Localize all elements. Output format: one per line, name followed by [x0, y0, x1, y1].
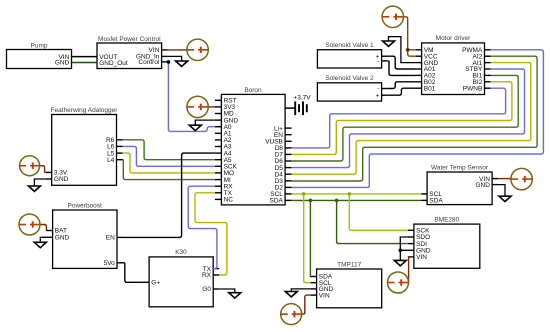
svg-text:EN: EN: [106, 235, 115, 242]
power symbol (Mosfet VIN supply): [187, 39, 208, 60]
power symbol (Boron 3V3 supply): [187, 96, 208, 117]
wire Mosfet Control segment: [168, 61, 170, 63]
powerboost right pins EN 5Vo: [104, 235, 123, 267]
ground (Mosfet GND_In): [168, 56, 188, 66]
wire Boron D5 to Motor STBY (blue): [292, 69, 525, 168]
ground (Water Temp GND): [498, 185, 511, 202]
wire Boron D2 to Motor PWMA (blue): [292, 50, 544, 188]
water temp sensor left pins SCL SDA: [421, 191, 443, 205]
pump pins VIN GND: [55, 54, 72, 67]
wire BME280 GND to ground node: [400, 249, 408, 251]
power symbol (Motor VM supply): [382, 6, 403, 27]
K30 right pins TX RX G0: [202, 266, 219, 293]
wire Boron SCL to Water Temp SCL (chartreuse): [292, 193, 422, 195]
ground (Powerboost GND): [34, 237, 46, 247]
wire Feather L5 to Boron MO (yellow): [123, 153, 215, 173]
svg-text:Featherwing Adalogger: Featherwing Adalogger: [51, 107, 119, 114]
junction SDA at TMP117 branch: [309, 199, 313, 203]
svg-text:PWNB: PWNB: [463, 85, 483, 92]
wire Mosfet VIN to power symbol: [168, 49, 187, 51]
solenoid valve 1: [317, 42, 381, 68]
svg-text:G+: G+: [151, 280, 160, 287]
TMP117 sensor: [317, 261, 382, 308]
svg-text:Motor driver: Motor driver: [436, 35, 472, 42]
solenoid valve 1 pins + -: [376, 53, 388, 65]
svg-text:GND: GND: [54, 176, 69, 183]
wire Feather L4 to Boron MI (green): [123, 160, 215, 180]
wire Boron D4 to Motor AI1 (yellow): [292, 63, 531, 175]
wire SV1 + to Motor A01: [388, 56, 416, 69]
power symbol (Powerboost BAT): [19, 214, 40, 235]
wire SV2 - to Motor B02: [388, 82, 416, 89]
wire Control net to Boron A0 (blue): [168, 63, 215, 132]
svg-text:Boron: Boron: [244, 87, 262, 94]
junction SDA at BME280 branch: [335, 199, 339, 203]
wire branch to Motor VM: [408, 49, 416, 51]
wire Boron SDA to Water Temp SDA (dark green): [292, 199, 422, 201]
wire Water Temp VIN to power: [498, 178, 511, 180]
svg-text:Pump: Pump: [31, 42, 48, 49]
wire power to Boron 3V3: [208, 106, 215, 108]
svg-text:GND: GND: [475, 182, 490, 189]
svg-text:+3.7V: +3.7V: [293, 95, 311, 102]
motor driver right pins: [462, 47, 490, 92]
wire Boron D3 to Motor AI2 (green): [292, 56, 537, 181]
solenoid valve 2: [317, 75, 381, 101]
junction SCL at BME280 branch: [348, 192, 352, 196]
power symbol (BME280 VIN): [388, 272, 409, 293]
svg-text:Control: Control: [138, 59, 160, 66]
svg-text:-: -: [377, 58, 379, 65]
wire Powerboost 5Vo to K30 G+ (black): [123, 263, 143, 283]
svg-text:Solenoid Valve 1: Solenoid Valve 1: [325, 42, 374, 49]
mosfet power control: [97, 36, 162, 69]
power symbol (TMP117 VIN): [281, 304, 302, 325]
junction Motor VM supply node: [406, 48, 410, 52]
svg-text:SDA: SDA: [270, 198, 284, 205]
svg-text:+: +: [376, 92, 380, 99]
motor driver: [422, 35, 485, 94]
motor driver left pins: [416, 47, 439, 92]
svg-text:VIN: VIN: [319, 292, 330, 299]
svg-text:SDA: SDA: [429, 198, 443, 205]
K30 left pin G+: [143, 280, 160, 287]
svg-text:L4: L4: [107, 157, 115, 164]
ground (Boron GND): [189, 120, 215, 131]
wire Boron D7 to Motor BI2 (yellow): [292, 82, 512, 155]
powerboost left pins BAT GND: [47, 228, 70, 242]
svg-text:5Vo: 5Vo: [104, 260, 116, 267]
ground (TMP117 GND): [285, 289, 310, 297]
svg-text:VIN: VIN: [416, 254, 427, 261]
svg-text:GND_Out: GND_Out: [99, 60, 128, 67]
wire power to Feather 3.3V: [39, 166, 45, 173]
battery +3.7V: [285, 95, 311, 116]
ground (BME280 SDO and GND): [394, 237, 408, 266]
wire SV1 - to Motor A02: [388, 61, 416, 76]
power symbol (Water Temp VIN): [511, 168, 532, 189]
boron microcontroller U1: [221, 87, 285, 205]
pump: [7, 42, 72, 68]
svg-text:GND: GND: [55, 60, 70, 67]
svg-text:TMP117: TMP117: [337, 261, 361, 268]
wire TMP117 VIN to power: [302, 295, 311, 314]
boron right pins: [265, 125, 291, 204]
wire SV2 + to Motor B01: [388, 88, 416, 95]
water temp sensor: [427, 164, 492, 204]
feather left pins 3.3V GND: [46, 170, 69, 184]
feather right pins R6 L6 L5 L4: [106, 137, 123, 164]
svg-text:Mosfet Power Control: Mosfet Power Control: [98, 36, 161, 43]
boron left pins: [215, 98, 238, 204]
wire Boron TX to K30 RX (yellow): [195, 193, 227, 275]
mosfet left pins VOUT GND_Out: [97, 54, 128, 67]
ground (K30 G0): [219, 289, 241, 298]
junction Control node: [167, 60, 171, 64]
wire Pump VIN to Mosfet VOUT: [72, 56, 98, 58]
BME280 sensor: [414, 216, 480, 268]
svg-text:BME280: BME280: [434, 216, 459, 223]
wire Feather L6 to Boron SCK (blue): [123, 146, 215, 166]
TMP117 left pins: [311, 274, 334, 300]
solenoid valve 2 pins - +: [376, 86, 388, 100]
wire SCL branch to BME280 SCK: [349, 194, 408, 230]
K30 sensor: [149, 249, 213, 307]
junction SCL at TMP117 branch: [302, 192, 306, 196]
wire Pump GND to Mosfet GND_Out: [72, 62, 98, 64]
ground (Feather GND): [28, 179, 45, 191]
svg-text:K30: K30: [175, 249, 187, 256]
wire power to Powerboost BAT: [40, 225, 47, 231]
featherwing adalogger: [51, 107, 119, 186]
wire Boron A4 to Powerboost EN (black): [123, 153, 215, 237]
ground (Motor GND): [383, 37, 416, 63]
wire Boron RX to K30 TX (blue): [188, 186, 217, 268]
wire SDA branch to TMP117 SDA: [309, 200, 311, 276]
water temp sensor right pins VIN GND: [475, 176, 498, 189]
wire Feather R6 to Boron A5 (green): [123, 140, 215, 160]
wire power to Motor VM and VCC: [404, 17, 416, 56]
svg-text:RX: RX: [202, 272, 212, 279]
mosfet right pins VIN GND_In Control: [136, 47, 168, 66]
svg-text:Solenoid Valve 2: Solenoid Valve 2: [325, 75, 374, 82]
wire Boron D6 to Motor BI1 (green): [292, 75, 519, 161]
svg-text:G0: G0: [202, 286, 211, 293]
junction BME280 ground node: [399, 249, 403, 253]
power symbol (Feather 3.3V): [20, 156, 40, 176]
powerboost: [53, 202, 117, 268]
wire SCL branch to TMP117 SCL: [304, 194, 311, 283]
svg-text:NC: NC: [224, 197, 234, 204]
svg-text:B01: B01: [424, 85, 436, 92]
svg-text:Water Temp Sensor: Water Temp Sensor: [431, 164, 489, 171]
svg-text:GND: GND: [55, 235, 70, 242]
wire Boron D8 to Motor PWNB (blue): [292, 88, 506, 148]
wire BME280 VIN to power: [407, 257, 410, 283]
BME280 left pins: [408, 228, 431, 262]
svg-text:Powerboost: Powerboost: [68, 202, 103, 209]
wire SDA branch to BME280 SDI: [337, 200, 408, 243]
